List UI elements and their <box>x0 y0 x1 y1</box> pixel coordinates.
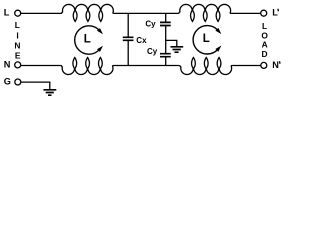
svg-text:G: G <box>4 77 11 87</box>
svg-text:E: E <box>15 50 21 60</box>
wire top middle <box>114 12 178 14</box>
terminal N' <box>261 62 267 68</box>
capacitor Cy2 plates <box>160 54 171 57</box>
inductor L1 top-left winding <box>61 4 114 21</box>
svg-text:N: N <box>272 60 279 70</box>
svg-text:N: N <box>14 41 20 51</box>
wire N terminal to inductor L3 <box>21 65 61 67</box>
wire G terminal to ground <box>21 82 50 89</box>
coupling arrow circle right <box>193 26 218 54</box>
wire L4 to N' terminal <box>232 65 261 67</box>
svg-text:L: L <box>203 33 210 45</box>
capacitor Cy2 bottom lead <box>165 57 167 66</box>
terminal N <box>15 62 21 68</box>
svg-text:L: L <box>84 33 91 45</box>
inductor L4 bottom-right winding <box>178 58 232 75</box>
label L' prime tick <box>277 9 280 12</box>
arrowhead right-bottom <box>215 46 221 52</box>
svg-text:Cx: Cx <box>136 36 147 45</box>
arrowhead left-top <box>97 28 103 34</box>
coupling arrow circle left <box>75 26 100 54</box>
terminal L' <box>261 10 267 16</box>
inductor L3 bottom-left winding <box>60 58 113 75</box>
terminal L <box>15 10 21 16</box>
capacitor Cy series lead <box>165 26 167 54</box>
svg-text:D: D <box>262 49 268 59</box>
label N' prime tick <box>279 61 282 64</box>
svg-text:Cy: Cy <box>147 47 158 56</box>
svg-text:N: N <box>4 59 11 69</box>
svg-text:L: L <box>4 8 10 18</box>
wire L terminal to inductor L1 <box>21 12 61 14</box>
svg-text:L: L <box>15 20 20 30</box>
arrowhead right-top <box>215 28 221 34</box>
terminal G <box>15 79 21 85</box>
capacitor Cx plates <box>123 37 134 40</box>
svg-text:I: I <box>16 30 18 40</box>
arrowhead left-bottom <box>97 46 103 52</box>
inductor L2 top-right winding <box>178 4 232 21</box>
wire L2 to L' terminal <box>231 12 261 14</box>
wire bottom middle <box>113 65 178 67</box>
capacitor Cy1 top lead <box>165 13 167 22</box>
wire Cy midpoint to ground <box>166 40 177 46</box>
ground symbol middle <box>171 47 184 52</box>
capacitor Cy1 plates <box>160 22 171 25</box>
capacitor Cx bottom lead <box>127 40 129 65</box>
ground symbol left <box>43 90 56 95</box>
capacitor Cx top lead <box>127 13 129 37</box>
svg-text:Cy: Cy <box>145 20 156 29</box>
